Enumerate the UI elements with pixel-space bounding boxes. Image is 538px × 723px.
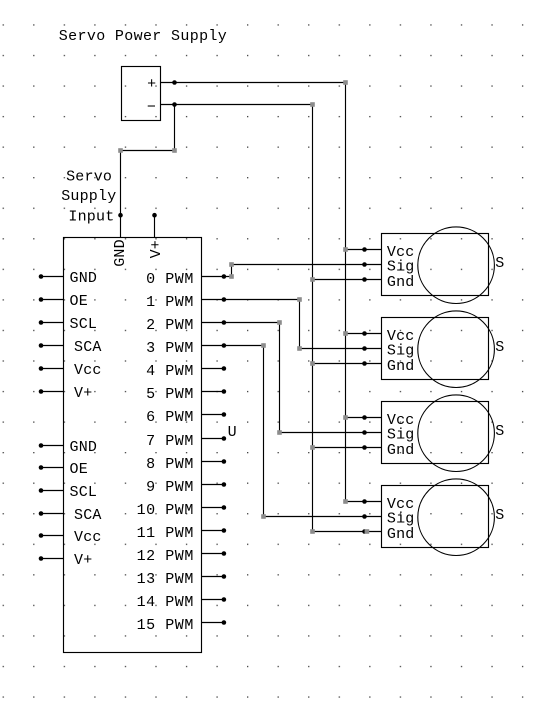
svg-text:Supply: Supply xyxy=(61,188,116,205)
svg-text:SCA: SCA xyxy=(74,339,102,356)
svg-text:Servo Power Supply: Servo Power Supply xyxy=(59,28,227,45)
svg-text:Servo: Servo xyxy=(66,169,112,186)
svg-text:S: S xyxy=(495,255,504,272)
svg-text:11 PWM: 11 PWM xyxy=(137,525,194,542)
svg-text:V+: V+ xyxy=(74,385,92,402)
svg-text:Input: Input xyxy=(68,209,114,226)
svg-text:Vcc: Vcc xyxy=(74,362,102,379)
svg-text:4 PWM: 4 PWM xyxy=(146,363,194,380)
svg-text:Sig: Sig xyxy=(387,427,415,444)
svg-text:GND: GND xyxy=(112,239,129,267)
svg-text:7 PWM: 7 PWM xyxy=(146,433,194,450)
svg-text:2 PWM: 2 PWM xyxy=(146,317,194,334)
svg-text:5 PWM: 5 PWM xyxy=(146,386,194,403)
svg-text:1 PWM: 1 PWM xyxy=(146,294,194,311)
svg-text:OE: OE xyxy=(70,293,88,310)
svg-text:8 PWM: 8 PWM xyxy=(146,456,194,473)
svg-text:9 PWM: 9 PWM xyxy=(146,479,194,496)
svg-text:V+: V+ xyxy=(74,552,92,569)
svg-text:0 PWM: 0 PWM xyxy=(146,271,194,288)
svg-text:15 PWM: 15 PWM xyxy=(137,617,194,634)
svg-text:SCA: SCA xyxy=(74,507,102,524)
svg-text:OE: OE xyxy=(70,461,88,478)
svg-text:Gnd: Gnd xyxy=(387,358,415,375)
svg-text:Vcc: Vcc xyxy=(74,529,102,546)
svg-text:S: S xyxy=(495,507,504,524)
svg-text:12 PWM: 12 PWM xyxy=(137,548,194,565)
svg-text:SCL: SCL xyxy=(70,316,98,333)
svg-text:Gnd: Gnd xyxy=(387,526,415,543)
svg-text:GND: GND xyxy=(70,270,98,287)
svg-text:Gnd: Gnd xyxy=(387,442,415,459)
svg-text:3 PWM: 3 PWM xyxy=(146,340,194,357)
svg-text:S: S xyxy=(495,339,504,356)
svg-text:−: − xyxy=(147,99,156,116)
svg-text:S: S xyxy=(495,423,504,440)
svg-text:Sig: Sig xyxy=(387,511,415,528)
svg-text:6 PWM: 6 PWM xyxy=(146,409,194,426)
svg-text:GND: GND xyxy=(70,439,98,456)
svg-text:Sig: Sig xyxy=(387,343,415,360)
svg-text:V+: V+ xyxy=(148,240,165,258)
svg-text:SCL: SCL xyxy=(70,484,98,501)
svg-text:Sig: Sig xyxy=(387,259,415,276)
svg-text:14 PWM: 14 PWM xyxy=(137,594,194,611)
svg-text:Gnd: Gnd xyxy=(387,274,415,291)
svg-text:13 PWM: 13 PWM xyxy=(137,571,194,588)
svg-text:+: + xyxy=(147,76,156,93)
svg-text:10 PWM: 10 PWM xyxy=(137,502,194,519)
svg-text:U: U xyxy=(228,424,237,441)
